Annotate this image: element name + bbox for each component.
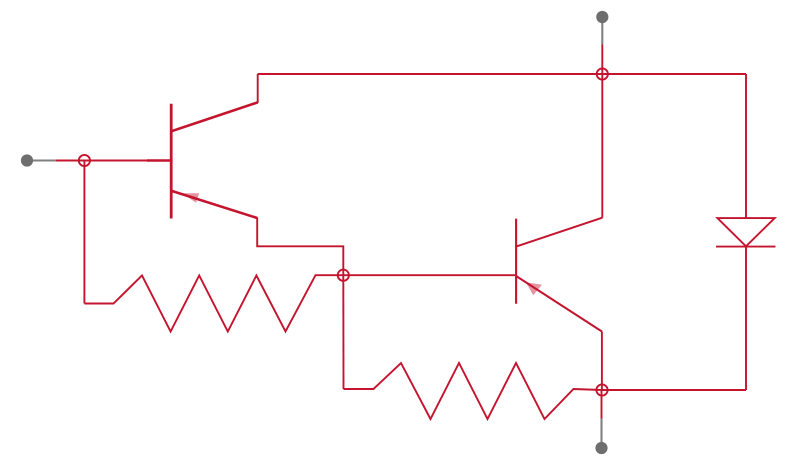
junction J1 [79, 155, 90, 166]
wire: Q1 collector up to top rail [257, 74, 259, 103]
wire: J2 to Q2 base [343, 274, 516, 276]
wire: Q1 emitter to node J2 [257, 218, 343, 276]
wire: P2 down to node J4 [601, 45, 603, 75]
wire: J3 to diode branch bottom [602, 389, 746, 391]
wire: diode branch bottom vertical [745, 247, 747, 390]
transistor Q1 [147, 102, 258, 218]
junction J3 [596, 384, 607, 395]
wire: J4 down to Q2 collector [601, 74, 603, 218]
resistor R2 [344, 363, 603, 419]
junction J2 [338, 270, 349, 281]
diode D1 [716, 218, 776, 247]
transistor Q2 [516, 218, 602, 332]
wire: top rail [258, 73, 746, 75]
wire: diode anode up to top rail [745, 74, 747, 218]
wire: J3 down to P3 [601, 390, 603, 419]
wire: J1 down to resistor R1 [83, 161, 85, 304]
pin P1 (left terminal) [21, 154, 56, 166]
resistor R1 [84, 275, 343, 331]
junction J4 [597, 68, 608, 79]
wire: J2 down to resistor R2 [342, 275, 344, 389]
pin P3 (bottom terminal) [595, 419, 607, 454]
pin P2 (top terminal) [596, 11, 608, 45]
wire: P1 to Q1 base through node J1 [56, 159, 171, 161]
wire: Q2 emitter down to node J3 [601, 332, 603, 391]
